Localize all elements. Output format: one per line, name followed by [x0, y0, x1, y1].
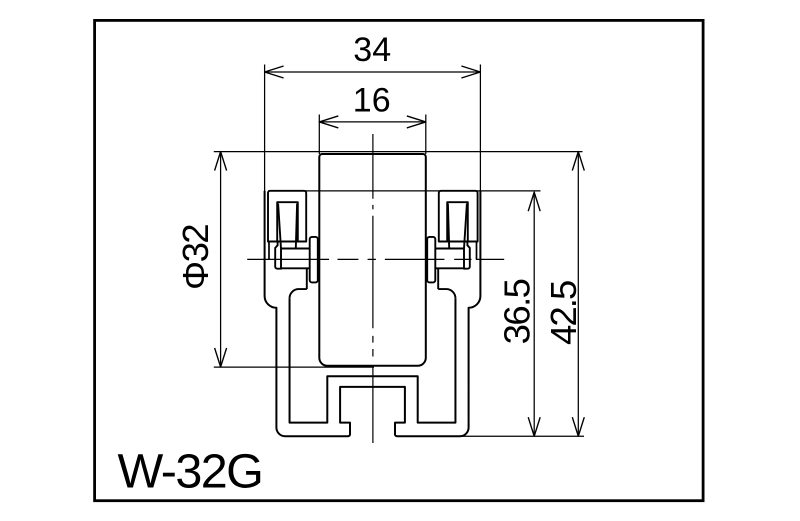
left plate window	[277, 202, 298, 241]
dimension 42.5 bottom arrow	[572, 417, 584, 436]
extension line Phi32 bottom	[214, 366, 374, 368]
left axle pin (trapezoid)	[278, 204, 297, 249]
left plate lower edge stub	[268, 242, 269, 260]
dimension 34 line	[265, 71, 481, 73]
right side plate	[439, 191, 478, 242]
left hub	[281, 249, 310, 290]
dimension 34 left extension	[264, 65, 266, 192]
dimension 42.5 line	[577, 152, 579, 437]
svg-text:36.5: 36.5	[496, 279, 537, 344]
right wall top edge	[438, 289, 455, 298]
left flange	[275, 242, 281, 269]
svg-text:W-32G: W-32G	[118, 445, 263, 499]
dimension 42.5 top arrow	[572, 152, 584, 171]
vertical centerline	[372, 134, 374, 443]
dimension 34 right extension	[479, 65, 481, 192]
dimension 16 left arrow	[319, 116, 338, 128]
dimension 36.5 line	[533, 192, 535, 436]
svg-text:Φ32: Φ32	[175, 225, 216, 290]
right spacer	[427, 237, 435, 283]
right axle pin (trapezoid)	[448, 204, 467, 249]
roller (wheel)	[319, 154, 426, 366]
dimension 34 right arrow	[461, 66, 480, 78]
dimension 36.5 bottom arrow	[528, 417, 540, 436]
left side plate	[268, 191, 306, 242]
right hub	[435, 249, 464, 290]
horizontal centerline	[247, 258, 504, 260]
right plate lower edge stub	[477, 242, 478, 260]
dimension Phi32 bottom arrow	[215, 348, 227, 367]
right plate window	[447, 202, 468, 241]
left wall top edge	[290, 289, 307, 298]
extension line 36.5 top (y=190.8, plate top level)	[268, 190, 541, 192]
dimension 16 line	[319, 121, 426, 123]
dimension 36.5 top arrow	[528, 192, 540, 211]
dimension Phi32 top arrow	[215, 152, 227, 171]
rail outer profile	[265, 191, 481, 436]
dimension 16 right extension	[425, 115, 427, 155]
svg-text:16: 16	[353, 82, 391, 120]
left spacer	[310, 237, 318, 283]
svg-text:34: 34	[353, 31, 391, 69]
right flange	[464, 242, 470, 269]
rail inner profile	[290, 298, 456, 422]
extension line top (Phi32 / 42.5 top, y=151.5)	[214, 151, 583, 153]
dimension 16 left extension	[318, 115, 320, 155]
dimension 16 right arrow	[407, 116, 426, 128]
dimension 34 left arrow	[265, 66, 284, 78]
extension line bottom (36.5 / 42.5, y=436.2)	[455, 435, 584, 437]
svg-text:42.5: 42.5	[543, 281, 584, 345]
dimension Phi32 line	[220, 152, 222, 367]
